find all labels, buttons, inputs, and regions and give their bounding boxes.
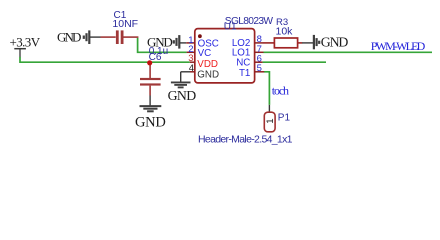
ground symbol at pin 4 bbox=[168, 72, 197, 103]
svg-text:VC: VC bbox=[198, 48, 212, 59]
wire pin 6 NC stub bbox=[263, 61, 326, 63]
wire pin 5 T1 down to P1 bbox=[264, 72, 269, 105]
ground symbol right of R3 bbox=[302, 35, 348, 50]
svg-text:P1: P1 bbox=[278, 113, 291, 124]
pin 6 NC bbox=[236, 54, 262, 69]
svg-text:GND: GND bbox=[168, 88, 197, 103]
pin 7 LO1 bbox=[232, 44, 264, 59]
ground symbol under C6 bbox=[135, 96, 166, 131]
pin 2 VC bbox=[187, 44, 212, 59]
wire +3.3V rail to pin 3 VDD bbox=[20, 57, 190, 62]
ground symbol left of C1 bbox=[57, 30, 101, 45]
svg-text:VDD: VDD bbox=[197, 59, 218, 70]
ground symbol at pin 1 bbox=[147, 34, 186, 49]
pin line of P1 bbox=[268, 105, 270, 113]
svg-text:10NF: 10NF bbox=[112, 18, 138, 30]
svg-text:NC: NC bbox=[236, 58, 250, 69]
svg-text:GND: GND bbox=[135, 114, 166, 130]
pin 1 OSC bbox=[186, 35, 219, 50]
svg-text:10k: 10k bbox=[276, 26, 294, 38]
wire GND to C1 left plate bbox=[101, 36, 116, 38]
svg-text:GND: GND bbox=[57, 30, 81, 45]
connector P1 bbox=[198, 105, 293, 146]
svg-text:4: 4 bbox=[189, 63, 194, 74]
pin 4 GND bbox=[181, 63, 219, 80]
svg-text:GND: GND bbox=[197, 69, 219, 80]
resistor R3 bbox=[263, 17, 302, 48]
svg-text:toch: toch bbox=[272, 84, 289, 98]
svg-text:1: 1 bbox=[265, 118, 276, 123]
wire pin 8 to R3 bbox=[263, 42, 274, 44]
svg-text:GND: GND bbox=[321, 35, 349, 50]
wire C1 down to pin 2 VC bbox=[138, 38, 187, 53]
wire junction to C6 top plate bbox=[149, 62, 151, 78]
pin 5 T1 bbox=[239, 63, 264, 79]
wire pin 7 LO1 to PWM-WLED bbox=[263, 51, 432, 53]
svg-text:PWM-WLED: PWM-WLED bbox=[371, 39, 426, 53]
svg-text:Header-Male-2.54_1x1: Header-Male-2.54_1x1 bbox=[198, 134, 293, 146]
svg-text:5: 5 bbox=[257, 63, 262, 74]
power port +3.3V bbox=[10, 34, 41, 57]
svg-text:T1: T1 bbox=[239, 68, 250, 79]
svg-text:+3.3V: +3.3V bbox=[10, 34, 41, 49]
capacitor C6 bbox=[140, 46, 168, 96]
pin 3 VDD bbox=[188, 53, 218, 70]
capacitor C1 bbox=[101, 10, 139, 44]
pin-1 marker dot bbox=[198, 34, 202, 38]
pin 8 LO2 bbox=[232, 34, 263, 49]
svg-text:U1: U1 bbox=[224, 22, 237, 33]
IC U1 SGL8023W body bbox=[195, 16, 274, 83]
wire pin 4 to ground bbox=[181, 71, 190, 73]
junction node on VDD rail bbox=[147, 60, 152, 65]
